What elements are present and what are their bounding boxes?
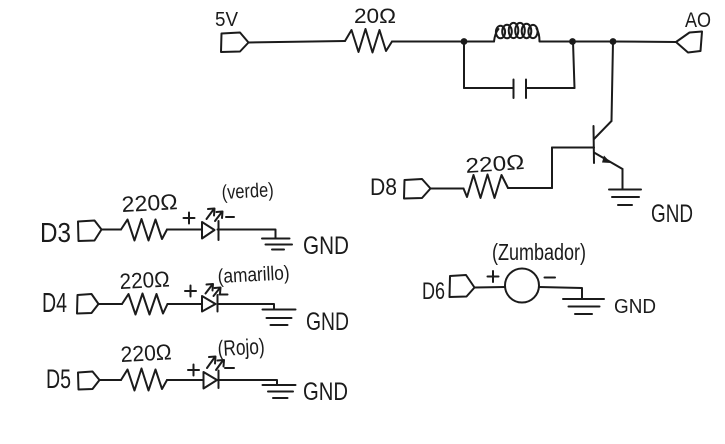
svg-text:GND: GND — [303, 232, 349, 260]
ground under Q1 — [609, 190, 641, 206]
LED1 diode (verde) — [202, 221, 219, 240]
svg-text:20Ω: 20Ω — [354, 5, 396, 28]
node A junction — [461, 38, 468, 45]
ground for LED1 — [262, 239, 292, 250]
connector D5 flag — [78, 372, 100, 390]
connector 5V flag — [221, 33, 249, 53]
color label verde — [221, 179, 274, 204]
minus sign at LED3 — [225, 367, 234, 369]
wire R1 to node A — [392, 41, 464, 43]
pin label D6 text — [422, 278, 445, 305]
wire node C down to Q1 collector — [612, 42, 614, 122]
wire R5 to LED3 — [167, 379, 204, 381]
buzzer BZ1 — [505, 269, 539, 303]
LED2 emission arrows — [206, 284, 221, 296]
svg-text:D4: D4 — [42, 287, 67, 318]
wire D4 to R4 — [99, 303, 123, 305]
svg-text:GND: GND — [651, 200, 693, 228]
pin label D4 text — [42, 287, 67, 318]
value label 220 ohm for R5 — [120, 339, 172, 367]
wire node A to L1 — [464, 41, 494, 43]
pin label D8 text — [370, 174, 397, 201]
value label 20 ohm for R1 — [354, 5, 396, 28]
LED3 emission arrows — [207, 357, 224, 371]
svg-text:220Ω: 220Ω — [121, 189, 178, 217]
pin label D5 text — [46, 364, 71, 394]
LED1 emission arrows — [207, 209, 223, 222]
pin label D3 text — [40, 217, 71, 248]
LED3 diode (Rojo) — [204, 371, 219, 389]
connector D4 flag — [77, 294, 99, 314]
ground for LED2 — [263, 310, 296, 326]
svg-text:220Ω: 220Ω — [120, 339, 172, 367]
wire LED3 to ground — [219, 380, 278, 385]
net label GND for LED2 — [306, 308, 349, 336]
resistor R4 — [122, 294, 168, 315]
wire D3 to R3 — [102, 229, 122, 231]
net label AO text — [685, 9, 711, 32]
resistor R5 — [121, 369, 167, 391]
wire BZ1 to ground — [539, 287, 582, 299]
ground for BZ1 — [563, 299, 604, 314]
LED2 diode (amarillo) — [202, 295, 218, 312]
minus sign at LED1 — [226, 216, 234, 218]
node C junction — [610, 38, 617, 45]
connector AO flag — [676, 32, 702, 53]
svg-text:(Rojo): (Rojo) — [217, 334, 265, 361]
ground for LED3 — [263, 385, 296, 398]
svg-text:GND: GND — [614, 296, 656, 318]
value label 220 ohm for R2 — [465, 151, 525, 178]
wire D8 to R2 — [430, 188, 464, 190]
wire D5 to R5 — [100, 379, 122, 381]
wire node A down to C1 — [463, 42, 465, 89]
resistor R2 — [464, 175, 509, 199]
value label 220 ohm for R4 — [119, 266, 170, 294]
svg-text:(Zumbador): (Zumbador) — [492, 239, 586, 265]
connector D8 flag — [404, 179, 431, 199]
wire 5V to R1 — [249, 41, 346, 43]
inductor L1 — [494, 23, 540, 42]
wire Q1 emitter down — [622, 169, 624, 189]
wire LED2 to ground — [218, 304, 275, 310]
wire L1 to node B — [540, 41, 573, 43]
svg-text:D3: D3 — [40, 217, 71, 248]
minus sign at LED2 — [220, 294, 228, 296]
capacitor C1 — [514, 80, 527, 99]
wire C1 right lead — [526, 87, 575, 89]
resistor R3 — [121, 219, 167, 241]
svg-text:AO: AO — [685, 9, 711, 32]
svg-text:220Ω: 220Ω — [465, 151, 525, 178]
wire bend down — [551, 148, 553, 189]
svg-text:D8: D8 — [370, 174, 397, 201]
net label 5V text — [215, 9, 239, 31]
plus sign at LED1 — [184, 213, 195, 224]
node B junction — [569, 38, 576, 45]
connector D3 flag — [78, 221, 102, 242]
net label GND for LED3 — [303, 378, 348, 406]
value label 220 ohm for R3 — [121, 189, 178, 217]
color label amarillo — [217, 262, 290, 288]
minus sign at BZ1 — [545, 277, 556, 279]
plus sign at BZ1 — [488, 271, 499, 282]
plus sign at LED2 — [185, 286, 196, 297]
svg-text:(verde): (verde) — [221, 179, 274, 204]
resistor R1 — [345, 29, 392, 53]
wire R3 to LED1 — [167, 229, 201, 231]
svg-text:220Ω: 220Ω — [119, 266, 170, 294]
transistor Q1 — [594, 121, 623, 169]
plus sign at LED3 — [188, 365, 199, 376]
svg-text:D6: D6 — [422, 278, 445, 305]
wire D6 to BZ1 — [475, 286, 506, 289]
svg-text:GND: GND — [306, 308, 349, 336]
svg-text:D5: D5 — [46, 364, 71, 394]
component label Zumbador — [492, 239, 586, 265]
wire bend to R2 — [508, 187, 552, 189]
svg-text:5V: 5V — [215, 9, 239, 31]
svg-text:(amarillo): (amarillo) — [217, 262, 290, 288]
wire C1 left lead — [464, 87, 513, 89]
net label GND under Q1 — [651, 200, 693, 228]
wire node C to AO — [613, 41, 676, 44]
color label Rojo — [217, 334, 265, 361]
wire Q1 base to bend — [552, 147, 594, 149]
net label GND for LED1 — [303, 232, 349, 260]
wire LED1 to ground — [218, 230, 276, 239]
connector D6 flag — [450, 275, 475, 297]
svg-text:GND: GND — [303, 378, 348, 406]
net label GND for BZ1 — [614, 296, 656, 318]
wire R4 to LED2 — [168, 303, 203, 305]
wire node B to node C — [573, 41, 614, 43]
wire C1 up to node B — [573, 42, 575, 89]
